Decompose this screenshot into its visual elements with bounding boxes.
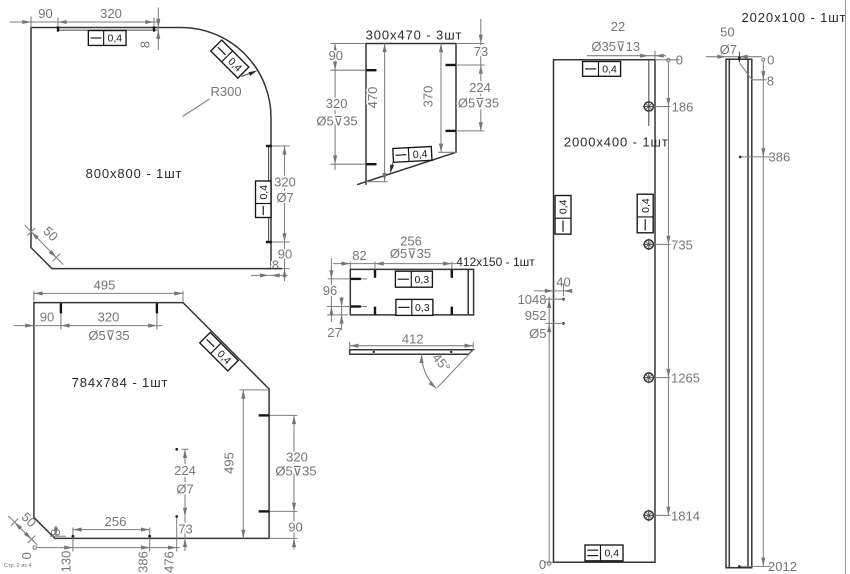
dimension 90 / 320 Ø5v35 top — [14, 309, 162, 343]
frame leader arrow to slant — [388, 162, 394, 174]
slant overshoot — [357, 182, 366, 185]
face hole dot 476 upper — [175, 448, 178, 451]
dimension 8 offset bottom — [48, 526, 66, 537]
tolerance frame 0,4 top edge — [88, 31, 126, 46]
dimension 495 right vertical — [222, 390, 269, 539]
top edge hole marks — [375, 262, 452, 278]
svg-text:Ø7: Ø7 — [720, 42, 737, 57]
svg-text:320: 320 — [274, 175, 296, 190]
bevel extension line — [437, 350, 473, 388]
svg-text:495: 495 — [222, 452, 237, 474]
leader and running dim 186 — [655, 98, 694, 115]
svg-text:90: 90 — [278, 247, 292, 262]
face hole dot 1048 — [562, 298, 565, 301]
leader and running dim 1814 — [655, 507, 700, 524]
svg-text:90: 90 — [329, 48, 343, 63]
svg-text:0,4: 0,4 — [640, 198, 652, 213]
top edge hole center line — [58, 29, 158, 31]
leaders 1048 / 952 — [546, 299, 566, 323]
side view hole dot right — [450, 351, 452, 353]
svg-text:8: 8 — [48, 529, 63, 536]
hole Ø35 marker 735 — [643, 239, 655, 251]
part outline 800x800 plate with R300 corner and 50 chamfer — [31, 28, 271, 269]
tolerance frame 0,4 on arc — [211, 40, 249, 78]
right edge hole mark lower — [266, 241, 272, 243]
left edge overshoot — [365, 182, 367, 185]
dimension 40 — [534, 274, 572, 296]
svg-text:476: 476 — [161, 551, 176, 573]
face hole dot 476 lower — [175, 515, 178, 518]
top edge hole mark left — [57, 26, 59, 31]
left edge hole marks — [327, 279, 367, 307]
svg-text:320: 320 — [286, 450, 308, 465]
hole Ø35 marker 186 — [643, 101, 655, 113]
part outline 2000x400 tall panel — [554, 60, 656, 562]
tolerance frame 0,4 top — [583, 62, 621, 77]
svg-text:Ø35⊽13: Ø35⊽13 — [591, 39, 640, 54]
svg-text:96: 96 — [323, 283, 337, 298]
svg-text:300x470 - 3шт: 300x470 - 3шт — [366, 27, 463, 42]
dimension 73 right — [474, 19, 488, 74]
hole center line vertical — [648, 60, 650, 126]
chamfer dimension 50 bottom left — [8, 509, 39, 545]
svg-text:2000x400 - 1шт: 2000x400 - 1шт — [564, 135, 669, 150]
running dimension line — [761, 61, 765, 566]
running dimension line right — [667, 62, 669, 516]
right edge hole center line — [268, 146, 270, 242]
svg-text:90: 90 — [40, 309, 54, 324]
svg-text:0,3: 0,3 — [415, 274, 430, 286]
svg-text:40: 40 — [556, 274, 570, 289]
svg-text:8: 8 — [138, 41, 153, 48]
svg-text:370: 370 — [420, 86, 435, 108]
svg-text:0: 0 — [676, 52, 683, 67]
dimension 470 — [365, 44, 388, 182]
radius leader R300 — [183, 84, 242, 117]
svg-text:2012: 2012 — [768, 559, 797, 574]
strip inner line left — [728, 59, 730, 567]
left edge hole mark upper — [366, 69, 377, 71]
svg-text:495: 495 — [94, 278, 116, 293]
svg-text:Ø5⊽35: Ø5⊽35 — [88, 328, 129, 343]
strip inner line right — [747, 59, 749, 567]
dimension 50 top — [706, 55, 762, 59]
hole dot 386 — [739, 150, 790, 165]
svg-text:1265: 1265 — [671, 371, 700, 386]
datum 0 bottom left — [539, 557, 554, 572]
datum 0 bottom left — [19, 546, 37, 560]
svg-text:Ø5: Ø5 — [529, 326, 546, 341]
bottom edge hole marks — [375, 307, 452, 315]
left hole leaders — [330, 70, 366, 164]
svg-text:784x784 - 1шт: 784x784 - 1шт — [72, 375, 169, 390]
top edge hole mark left — [60, 303, 62, 329]
right hole leaders — [456, 65, 485, 131]
face hole dot 130 — [72, 535, 75, 538]
tolerance frame 0,4 on slant — [393, 147, 432, 163]
datum 0 top right — [655, 52, 683, 67]
hole Ø35 marker 1265 — [643, 372, 655, 384]
tolerance frame 0,4 right edge — [256, 181, 272, 218]
dimension 320 Ø5v35 / 90 right — [275, 415, 316, 549]
svg-text:0,4: 0,4 — [108, 33, 123, 45]
svg-text:0,4: 0,4 — [558, 199, 570, 214]
svg-text:1048: 1048 — [518, 292, 547, 307]
svg-text:73: 73 — [178, 521, 192, 536]
svg-text:Ø7: Ø7 — [276, 190, 293, 205]
side view bar with 45 bevel — [350, 350, 474, 355]
svg-text:1814: 1814 — [671, 508, 700, 523]
tolerance frame 0,4 left mid — [555, 196, 571, 235]
svg-text:8: 8 — [272, 258, 279, 273]
side view hole dot left — [373, 351, 375, 353]
svg-text:952: 952 — [525, 308, 547, 323]
top edge hole mark right — [153, 26, 155, 31]
svg-text:0: 0 — [19, 552, 34, 559]
svg-text:0,4: 0,4 — [604, 548, 619, 560]
svg-text:224: 224 — [174, 463, 196, 478]
svg-text:412x150 - 1шт: 412x150 - 1шт — [456, 255, 535, 269]
datum 0 top — [762, 53, 775, 68]
svg-text:800x800 - 1шт: 800x800 - 1шт — [86, 166, 183, 181]
right edge hole mark upper — [446, 64, 457, 66]
dimension 320 Ø7 right — [274, 146, 296, 281]
svg-text:130: 130 — [59, 551, 74, 573]
svg-text:73: 73 — [474, 44, 488, 59]
svg-text:224: 224 — [469, 80, 491, 95]
svg-text:0: 0 — [539, 557, 546, 572]
leader and running dim 1265 — [655, 369, 700, 386]
svg-text:50: 50 — [720, 25, 734, 40]
svg-text:22: 22 — [611, 19, 625, 34]
frame leader arrow to arc — [242, 69, 259, 77]
part outline 412x150 top view — [350, 269, 473, 315]
dimension 8 top right — [138, 8, 161, 51]
tolerance frame 0,3 lower — [396, 299, 433, 315]
svg-text:Ø5⊽35: Ø5⊽35 — [275, 463, 316, 478]
svg-text:0,4: 0,4 — [413, 148, 428, 161]
svg-text:90: 90 — [38, 6, 52, 21]
svg-text:0,4: 0,4 — [602, 64, 617, 76]
chamfer dimension 50 bottom left — [25, 223, 64, 264]
dimension 495 top — [34, 278, 183, 302]
hole Ø35 marker 1814 — [643, 510, 655, 522]
dimension 27 left — [327, 297, 348, 340]
running dimension line bottom — [36, 518, 180, 552]
svg-text:27: 27 — [327, 325, 341, 340]
svg-text:735: 735 — [671, 237, 693, 252]
svg-text:Стр. 2 из 4: Стр. 2 из 4 — [4, 563, 31, 569]
svg-text:186: 186 — [672, 100, 694, 115]
svg-text:412: 412 — [402, 332, 424, 347]
svg-text:386: 386 — [135, 551, 150, 573]
svg-text:90: 90 — [288, 520, 302, 535]
tolerance frame 0,4 mid right — [637, 194, 653, 233]
svg-text:0: 0 — [767, 53, 774, 68]
svg-text:470: 470 — [365, 87, 380, 109]
part outline 300x470 trapezoid panel — [366, 44, 456, 182]
face hole dot 952 — [562, 322, 565, 325]
right edge hole mark lower — [446, 130, 457, 132]
extension lines top — [31, 17, 154, 28]
inner edge line right — [467, 269, 469, 315]
face hole dot 386 — [148, 535, 151, 538]
svg-text:Ø5⊽35: Ø5⊽35 — [390, 246, 431, 261]
dimension 96 left — [323, 259, 337, 323]
svg-text:256: 256 — [105, 514, 127, 529]
leader hole 8 — [740, 63, 767, 80]
top edge hole mark right — [156, 303, 158, 329]
svg-text:Ø5⊽35: Ø5⊽35 — [316, 113, 357, 128]
dimension 90 / 320 top — [10, 6, 161, 24]
extension bottom right — [269, 537, 297, 539]
svg-text:2020x100 - 1шт: 2020x100 - 1шт — [742, 10, 847, 25]
svg-text:Ø5⊽35: Ø5⊽35 — [458, 96, 499, 111]
svg-text:386: 386 — [769, 150, 791, 165]
tolerance frame 0,4 on chamfer — [200, 332, 238, 370]
dimension 8 bottom right — [251, 258, 288, 278]
svg-text:8: 8 — [767, 74, 774, 89]
dimension 224 Ø7 — [174, 449, 196, 551]
running dimension line left — [547, 297, 551, 564]
drawing frame right border — [845, 0, 847, 574]
right edge hole mark lower — [259, 510, 298, 512]
center tick with arrow — [738, 52, 741, 64]
svg-text:Ø7: Ø7 — [176, 482, 193, 497]
hole dot 2012 — [738, 559, 797, 574]
top edge extensions — [330, 43, 484, 45]
dimension 224 Ø5v35 right — [458, 65, 499, 131]
angular dimension 45 — [420, 350, 454, 390]
dimension 256 bottom — [73, 514, 150, 532]
right edge hole mark upper — [259, 414, 298, 416]
part outline 2020x100 narrow strip — [726, 59, 752, 567]
tolerance frame 0,4 bottom — [585, 545, 623, 561]
leader and running dim 735 — [655, 236, 693, 253]
right edge hole mark upper — [266, 145, 272, 147]
tolerance frame 0,3 upper — [395, 271, 432, 287]
dimension 370 — [420, 44, 457, 153]
dimension 90 / 320 Ø5v35 left — [316, 44, 357, 171]
left edge hole mark lower — [366, 163, 377, 165]
dimension 82 / 256 Ø5v35 top — [333, 234, 456, 269]
dimension 22 Ø35v13 top — [587, 19, 666, 60]
extension lines right — [271, 146, 290, 269]
svg-text:0,3: 0,3 — [415, 302, 430, 314]
svg-text:82: 82 — [352, 248, 366, 263]
svg-text:0,4: 0,4 — [258, 185, 270, 200]
svg-text:R300: R300 — [211, 84, 242, 99]
svg-text:320: 320 — [100, 6, 122, 21]
svg-text:320: 320 — [98, 309, 120, 324]
dimension 412 — [350, 332, 474, 349]
part outline 784x784 plate with big 45 chamfer — [34, 303, 269, 539]
svg-text:320: 320 — [326, 96, 348, 111]
bottom edge repaint — [268, 268, 282, 270]
